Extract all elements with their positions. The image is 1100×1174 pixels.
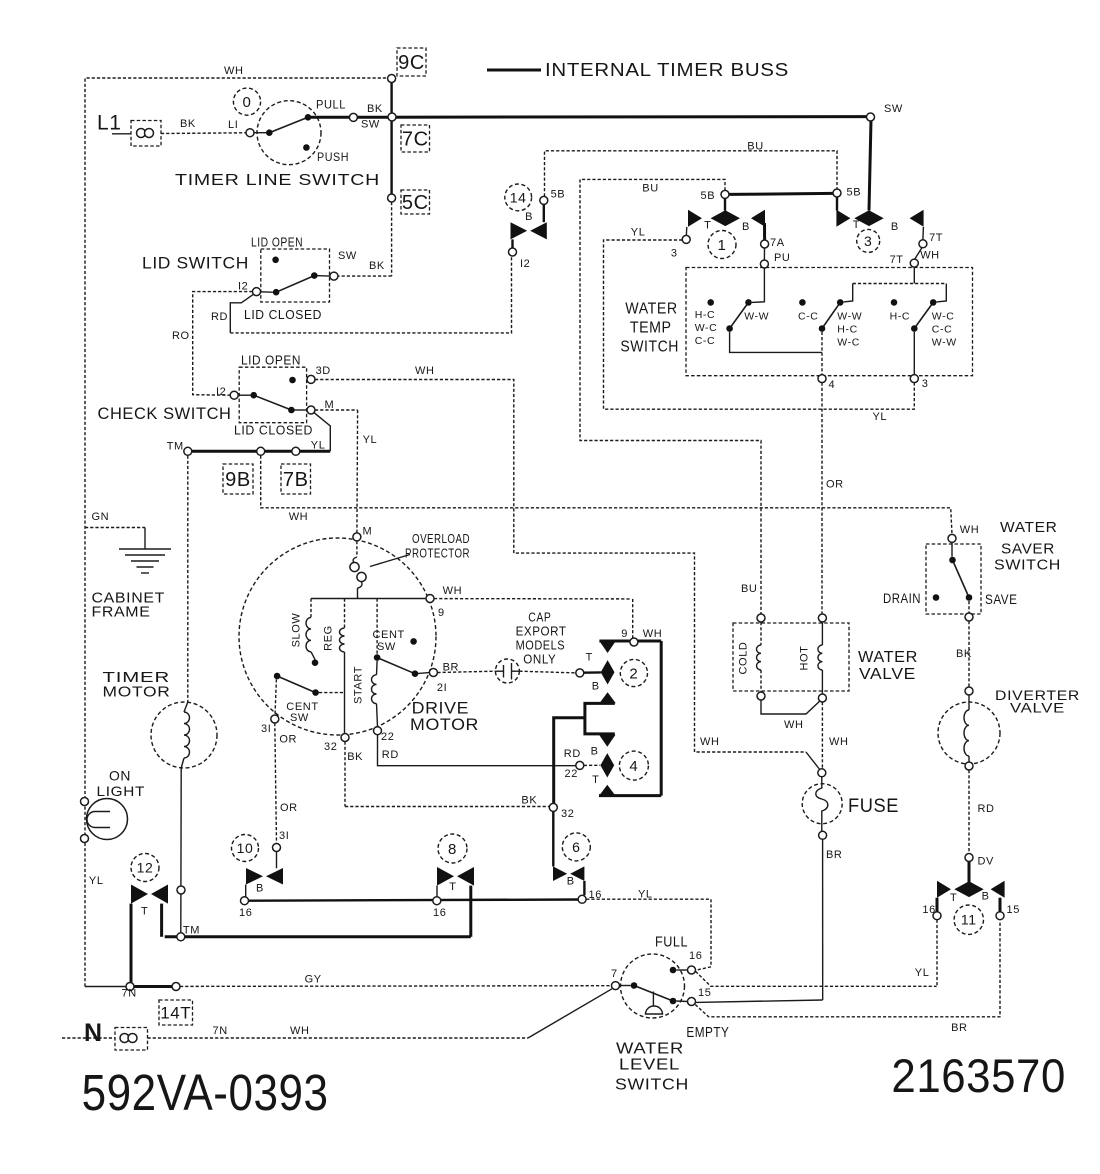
svg-text:22: 22 [381,731,394,743]
svg-text:MOTOR: MOTOR [410,715,479,734]
svg-text:SWITCH: SWITCH [620,339,679,356]
svg-text:T: T [592,774,599,786]
svg-text:B: B [567,876,575,888]
svg-text:7N: 7N [122,988,137,1000]
svg-text:OR: OR [280,802,298,814]
svg-text:5B: 5B [701,190,716,202]
svg-text:C-C: C-C [695,335,715,347]
svg-text:LI: LI [228,119,238,131]
svg-text:SW: SW [361,119,380,131]
svg-text:BK: BK [347,751,363,763]
svg-text:LID OPEN: LID OPEN [251,236,303,250]
svg-text:YL: YL [363,434,378,446]
svg-text:WATER: WATER [858,649,918,666]
svg-text:SWITCH: SWITCH [615,1077,689,1094]
svg-text:PU: PU [774,252,790,264]
svg-text:11: 11 [961,912,977,928]
svg-text:FUSE: FUSE [848,796,899,817]
svg-text:3I: 3I [279,830,289,842]
svg-text:TIMER LINE SWITCH: TIMER LINE SWITCH [175,172,380,189]
svg-text:4: 4 [829,379,836,391]
svg-text:BK: BK [180,118,196,130]
svg-text:L1: L1 [97,112,122,135]
svg-text:MODELS: MODELS [516,639,566,653]
svg-text:WH: WH [290,1025,310,1037]
svg-text:YL: YL [89,875,104,887]
svg-text:32: 32 [324,741,337,753]
svg-text:C-C: C-C [798,311,818,323]
svg-text:START: START [353,666,365,704]
svg-text:VALVE: VALVE [1010,700,1065,716]
svg-text:4: 4 [629,758,638,775]
svg-text:RD: RD [978,803,995,815]
svg-text:OR: OR [826,479,844,491]
svg-text:16: 16 [689,950,702,962]
svg-text:DV: DV [978,856,995,868]
svg-text:W-W: W-W [837,311,862,323]
svg-text:LID OPEN: LID OPEN [241,354,301,368]
svg-text:WH: WH [700,736,720,748]
svg-text:I2: I2 [216,386,226,398]
svg-text:WH: WH [920,250,940,262]
svg-text:SAVE: SAVE [985,592,1018,607]
svg-text:1: 1 [718,237,727,254]
svg-text:5C: 5C [402,192,429,214]
svg-text:T: T [704,220,711,232]
svg-text:2I: 2I [437,682,447,694]
svg-text:7T: 7T [929,232,943,244]
svg-text:EXPORT: EXPORT [516,625,567,639]
svg-text:BU: BU [642,183,658,195]
svg-text:BR: BR [826,849,842,861]
svg-text:7C: 7C [402,129,429,151]
svg-text:WATER: WATER [625,301,677,318]
svg-text:7: 7 [611,968,618,980]
svg-text:B: B [525,211,533,223]
svg-text:BR: BR [443,662,459,674]
svg-text:T: T [853,219,860,231]
svg-text:YL: YL [638,889,653,901]
svg-text:12: 12 [137,860,154,876]
svg-text:PROTECTOR: PROTECTOR [405,546,470,561]
svg-text:DRAIN: DRAIN [883,591,921,606]
svg-text:SW: SW [377,641,396,653]
svg-text:OVERLOAD: OVERLOAD [412,531,470,546]
svg-text:OR: OR [279,734,297,746]
svg-text:FRAME: FRAME [92,604,151,621]
svg-text:B: B [256,883,264,895]
svg-text:9: 9 [621,628,628,640]
svg-text:BK: BK [956,648,972,660]
svg-text:GY: GY [305,974,322,986]
svg-text:5B: 5B [551,189,566,201]
svg-text:9C: 9C [398,52,425,74]
svg-text:FULL: FULL [655,935,688,951]
svg-text:CAP: CAP [528,611,551,625]
svg-text:RD: RD [211,311,228,323]
svg-text:LID CLOSED: LID CLOSED [234,424,313,438]
svg-text:10: 10 [237,840,254,856]
svg-text:MOTOR: MOTOR [103,684,171,701]
svg-text:M: M [325,399,335,411]
svg-text:SW: SW [338,250,357,262]
svg-text:EMPTY: EMPTY [686,1025,729,1041]
svg-text:16: 16 [589,889,602,901]
svg-text:T: T [586,652,593,664]
svg-text:2163570: 2163570 [891,1049,1066,1102]
svg-text:W-C: W-C [837,337,860,349]
svg-text:WH: WH [415,365,435,377]
svg-text:14: 14 [510,189,527,205]
svg-text:W-C: W-C [932,311,955,323]
svg-text:LEVEL: LEVEL [619,1057,680,1074]
svg-text:B: B [592,681,600,693]
svg-text:TM: TM [183,925,200,937]
svg-text:LID SWITCH: LID SWITCH [142,254,249,273]
svg-text:15: 15 [698,987,711,999]
svg-text:16: 16 [922,904,935,916]
svg-text:REG: REG [323,625,335,651]
svg-text:BR: BR [951,1022,967,1034]
svg-text:T: T [449,881,456,893]
svg-text:WH: WH [829,736,849,748]
svg-text:8: 8 [448,841,457,858]
svg-text:WATER: WATER [616,1041,684,1058]
svg-text:BU: BU [747,141,763,153]
svg-text:H-C: H-C [837,324,857,336]
svg-text:WH: WH [784,719,804,731]
svg-text:SAVER: SAVER [1001,541,1055,558]
svg-text:B: B [982,891,990,903]
svg-text:RD: RD [382,749,399,761]
svg-text:SW: SW [884,103,903,115]
svg-text:14T: 14T [160,1004,191,1023]
svg-text:YL: YL [311,440,326,452]
svg-text:SLOW: SLOW [291,613,303,648]
svg-text:6: 6 [572,839,580,855]
svg-text:2: 2 [629,665,638,682]
svg-text:B: B [742,221,750,233]
svg-text:BK: BK [369,260,385,272]
svg-text:5B: 5B [847,187,862,199]
svg-text:0: 0 [243,94,252,111]
svg-text:3I: 3I [261,723,271,735]
svg-text:TM: TM [167,441,184,453]
svg-text:INTERNAL TIMER BUSS: INTERNAL TIMER BUSS [545,60,789,80]
svg-text:WH: WH [960,524,980,536]
svg-text:HOT: HOT [799,645,811,670]
svg-text:W-W: W-W [932,337,957,349]
svg-text:TEMP: TEMP [630,320,672,337]
svg-text:9B: 9B [225,469,251,491]
svg-text:15: 15 [1007,904,1020,916]
svg-text:YL: YL [915,967,930,979]
svg-text:SWITCH: SWITCH [994,557,1061,574]
svg-text:3: 3 [922,378,929,390]
svg-text:ONLY: ONLY [523,653,556,667]
svg-text:BK: BK [521,795,537,807]
svg-text:T: T [141,906,148,918]
svg-text:I2: I2 [520,258,530,270]
svg-text:H-C: H-C [890,311,910,323]
svg-text:RO: RO [172,330,190,342]
svg-text:592VA-0393: 592VA-0393 [82,1064,329,1121]
svg-text:RD: RD [564,748,581,760]
svg-text:7N: 7N [213,1025,228,1037]
svg-text:ON: ON [109,768,131,784]
svg-text:3: 3 [671,248,678,260]
svg-text:M: M [363,526,373,538]
svg-text:LIGHT: LIGHT [97,783,146,799]
svg-text:LID CLOSED: LID CLOSED [244,308,322,322]
svg-text:W-W: W-W [744,311,769,323]
svg-text:7A: 7A [770,237,785,249]
svg-text:16: 16 [239,907,252,919]
svg-text:N: N [84,1019,103,1047]
svg-text:3: 3 [864,233,872,249]
svg-text:16: 16 [433,907,446,919]
svg-text:GN: GN [92,511,110,523]
svg-text:PUSH: PUSH [317,150,349,164]
svg-text:WH: WH [443,585,463,597]
svg-text:WH: WH [224,65,244,77]
svg-text:CHECK SWITCH: CHECK SWITCH [98,404,232,423]
svg-text:WH: WH [289,511,309,523]
svg-text:BK: BK [367,103,383,115]
svg-text:CENT: CENT [373,629,405,641]
svg-text:SW: SW [290,712,309,724]
svg-text:C-C: C-C [932,324,952,336]
svg-text:VALVE: VALVE [859,666,916,683]
svg-text:WATER: WATER [1000,519,1058,536]
svg-text:7B: 7B [283,469,309,491]
svg-text:YL: YL [631,227,646,239]
svg-text:T: T [950,892,957,904]
svg-text:22: 22 [565,768,578,780]
svg-text:W-C: W-C [695,322,718,334]
svg-text:BU: BU [741,583,757,595]
svg-text:H-C: H-C [695,309,715,321]
svg-text:3D: 3D [316,365,331,377]
svg-text:PULL: PULL [316,98,346,112]
svg-text:YL: YL [873,411,888,423]
svg-text:WH: WH [643,628,663,640]
svg-text:7T: 7T [890,254,904,266]
svg-text:B: B [591,746,599,758]
svg-text:I2: I2 [238,281,248,293]
svg-text:9: 9 [438,607,445,619]
svg-text:B: B [891,221,899,233]
svg-text:32: 32 [561,808,574,820]
svg-text:COLD: COLD [738,642,750,675]
